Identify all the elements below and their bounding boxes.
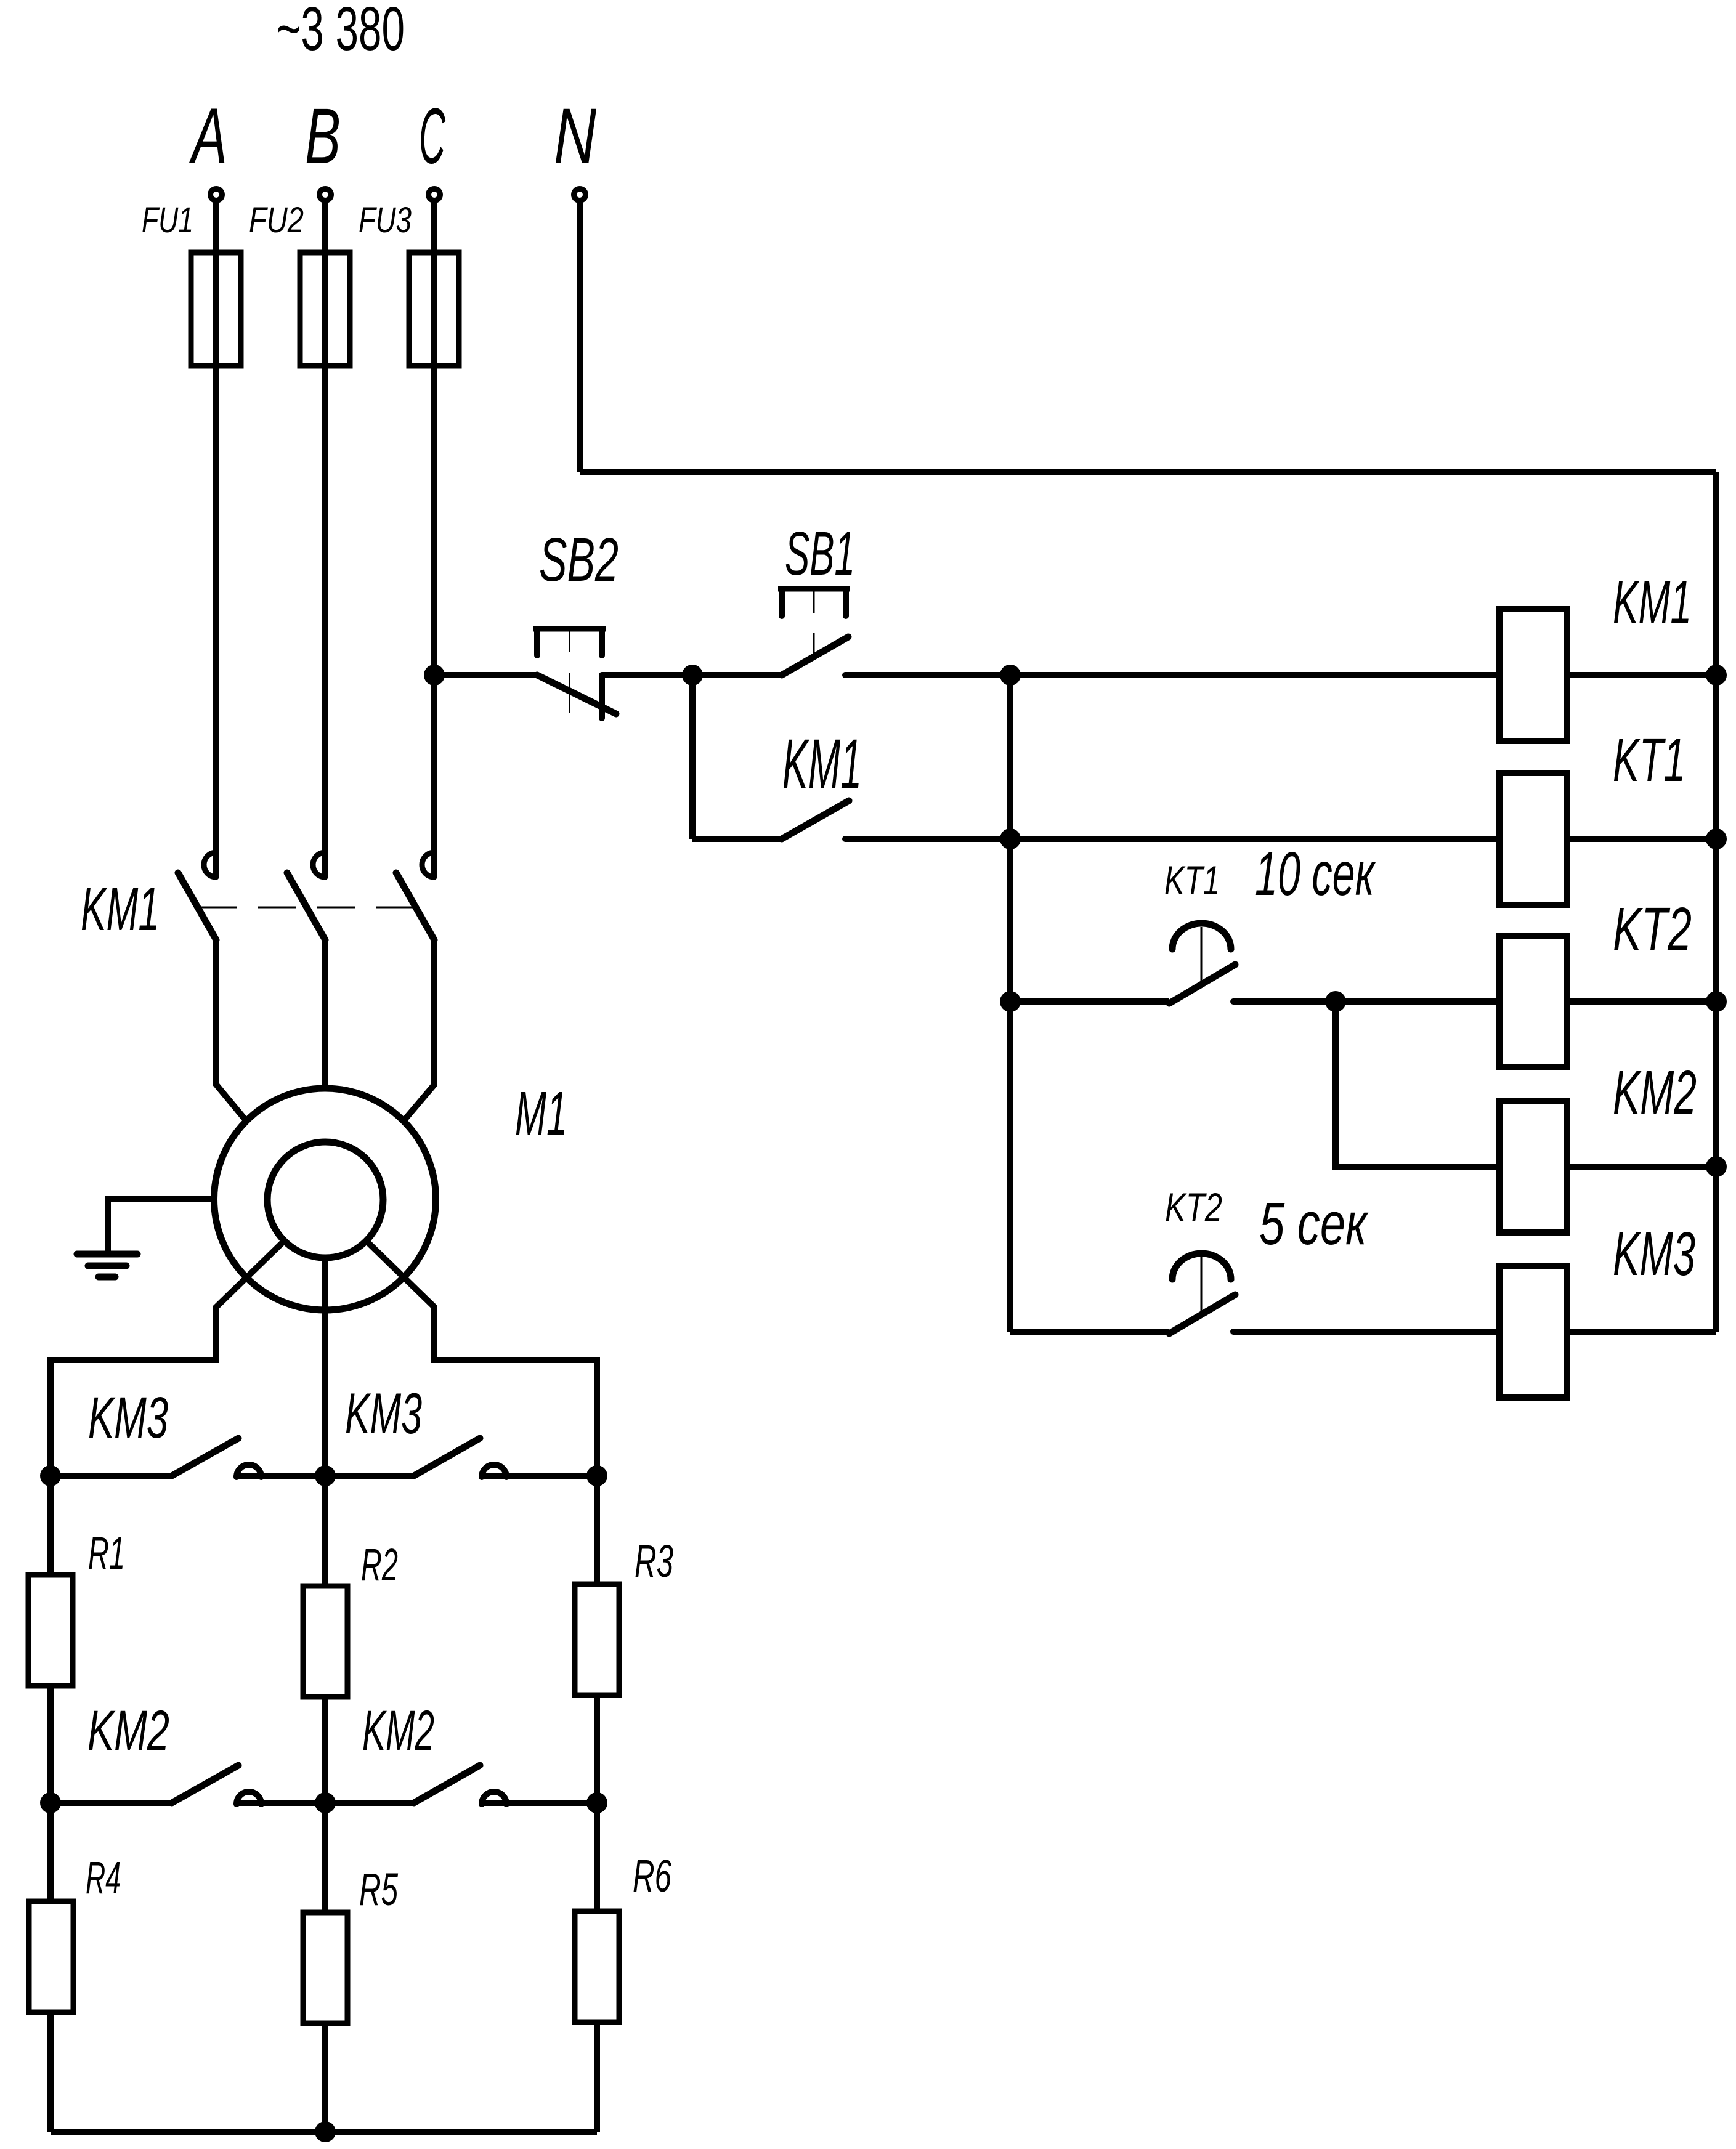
svg-text:KM3: KM3 [88, 1385, 168, 1451]
KM1 linkage dashed line [198, 907, 414, 909]
svg-text:KM1: KM1 [782, 725, 862, 804]
contact KM2.1 lead left [51, 1800, 172, 1806]
wire KM1.3 to motor [404, 940, 434, 1121]
junction rail3 dropper2 [1325, 991, 1346, 1012]
wire KT1 contact to KT2 coil [1233, 998, 1499, 1005]
ground wire [108, 1199, 214, 1252]
svg-text:10 сек: 10 сек [1255, 840, 1376, 909]
button SB2 blade [537, 675, 616, 714]
contact KT1 stem [1201, 927, 1203, 984]
wire phase B [322, 202, 328, 877]
button SB2 fixed stub [599, 675, 605, 718]
wire KM1.1 to motor [216, 940, 246, 1121]
contact KM1.3 blade [396, 873, 434, 940]
junction KM2 row right [586, 1792, 607, 1813]
svg-text:KM1: KM1 [81, 875, 160, 944]
wire KT2 contact to KM3 coil [1233, 1329, 1499, 1335]
wire SB1 to KM1 coil [845, 672, 1499, 678]
svg-text:KM3: KM3 [345, 1381, 422, 1446]
wire bottom bus [51, 2129, 597, 2135]
junction KM2 row middle [315, 1792, 336, 1813]
coil KM3 [1499, 1266, 1567, 1398]
fuse FU3 [409, 253, 459, 366]
svg-text:N: N [554, 92, 596, 180]
svg-text:R5: R5 [359, 1864, 399, 1915]
ground symbol [77, 1254, 137, 1277]
wire rail1 to SB2 [434, 672, 537, 678]
contact KT1 blade [1169, 965, 1235, 1003]
svg-text:KT2: KT2 [1613, 895, 1692, 964]
wire rotor middle [322, 1258, 328, 1586]
contact KM1 aux blade [782, 801, 849, 839]
svg-text:FU2: FU2 [249, 200, 304, 240]
wire R2 to KM2 row [322, 1697, 328, 1912]
svg-text:KM2: KM2 [1613, 1058, 1697, 1127]
resistor R1 [28, 1575, 73, 1686]
contact KM3.2 blade [414, 1438, 480, 1476]
junction KM3 row middle [315, 1465, 336, 1486]
terminal B [320, 189, 331, 201]
wire R1 to KM2 row [47, 1686, 54, 1901]
resistor R6 [575, 1911, 619, 2022]
wire right N bus [1713, 472, 1719, 1332]
svg-text:KM2: KM2 [362, 1699, 434, 1762]
junction bottom bus [315, 2121, 336, 2142]
wire dropper2 [1336, 1002, 1499, 1167]
wire rotor left [51, 1241, 285, 1576]
motor M1 stator circle [214, 1088, 436, 1310]
junction rail2 dropper [1000, 828, 1021, 849]
contact KM3.1 lead left [51, 1473, 172, 1479]
resistor R2 [303, 1586, 347, 1697]
button SB1 blade [782, 637, 848, 675]
svg-text:R3: R3 [635, 1536, 673, 1587]
junction KM3 row right [586, 1465, 607, 1486]
button SB1 actuator [778, 589, 850, 654]
wire KM2 coil to bus [1567, 1164, 1716, 1170]
svg-text:R2: R2 [361, 1539, 398, 1590]
wire R5 to bottom bus [322, 2023, 328, 2132]
button SB2 actuator [533, 629, 606, 713]
wire rail5 left [1010, 1329, 1169, 1335]
coil KM1 [1499, 609, 1567, 741]
junction C phase control tap [424, 665, 445, 686]
wire R6 to bottom bus [594, 2022, 600, 2132]
fuse FU2 [300, 253, 350, 366]
wire SB2 to SB1 [602, 672, 692, 678]
terminal C [429, 189, 440, 201]
svg-text:B: B [305, 92, 341, 180]
contact KM1.2 blade [287, 873, 325, 940]
junction SB1 [682, 665, 703, 686]
wire rail3 to KT1 contact [1010, 998, 1169, 1005]
contact KM2.1 lead right [237, 1800, 325, 1806]
svg-text:FU1: FU1 [142, 200, 193, 240]
wire R4 to bottom bus [47, 2012, 54, 2132]
contact KM3.2 leads [325, 1473, 414, 1479]
terminal A [211, 189, 222, 201]
junction KM2 row left [40, 1792, 61, 1813]
contact KM2.2 leads [325, 1800, 414, 1806]
svg-text:KT1: KT1 [1613, 726, 1685, 795]
svg-text:A: A [189, 92, 227, 180]
svg-text:SB1: SB1 [785, 519, 855, 588]
resistor R5 [303, 1912, 347, 2023]
coil KT2 [1499, 936, 1567, 1067]
svg-text:KT2: KT2 [1165, 1184, 1222, 1230]
contact KM1.2 fixed hook [313, 852, 325, 877]
svg-text:R6: R6 [633, 1850, 672, 1901]
contact KM2.1 hook [237, 1792, 261, 1804]
fuse FU1 [191, 253, 241, 366]
wire to KM1 aux [692, 836, 782, 842]
svg-text:KM1: KM1 [1613, 568, 1692, 637]
wire phase A [213, 202, 219, 877]
contact KM1.1 fixed hook [204, 852, 216, 877]
wire to SB1 [692, 672, 782, 678]
svg-text:~3 380: ~3 380 [277, 0, 405, 63]
contact KM2.2 blade [414, 1765, 480, 1803]
wire rotor right [367, 1241, 598, 1585]
junction rail1 dropper [1000, 665, 1021, 686]
wire KT1 coil to bus [1567, 836, 1716, 842]
wire left dropper [1007, 675, 1013, 1332]
terminal N [574, 189, 586, 201]
wire KM1.2 to motor [322, 940, 328, 1088]
contact KM3.1 lead right [237, 1473, 325, 1479]
wire KM3 coil to bus [1567, 1329, 1716, 1335]
svg-text:C: C [419, 92, 446, 180]
contact KM1.3 fixed hook [422, 852, 434, 877]
contact KM3.2 hook [482, 1465, 506, 1477]
wire neutral N across top [580, 469, 1716, 475]
svg-text:KM3: KM3 [1613, 1220, 1695, 1289]
svg-text:SB2: SB2 [539, 525, 619, 594]
contact KM2.1 blade [172, 1765, 238, 1803]
resistor R3 [575, 1584, 619, 1695]
junction rail3 left [1000, 991, 1021, 1012]
contact KM1.1 blade [178, 873, 216, 940]
junction bus rail1 [1706, 665, 1727, 686]
contact KM3.1 hook [237, 1465, 261, 1477]
contact KT2 blade [1169, 1295, 1235, 1334]
junction bus rail4 [1706, 1156, 1727, 1177]
wire SB1 junction dropper [689, 675, 696, 839]
wire KM1 aux to KT1 coil [845, 836, 1499, 842]
wire neutral N down [577, 202, 583, 472]
svg-text:FU3: FU3 [359, 200, 412, 240]
svg-text:R1: R1 [88, 1528, 125, 1579]
junction bus rail2 [1706, 828, 1727, 849]
wire phase C [431, 202, 437, 877]
junction bus rail3 [1706, 991, 1727, 1012]
contact KT2 stem [1201, 1257, 1203, 1314]
contact KT2 delay arc [1172, 1253, 1231, 1279]
svg-text:5 сек: 5 сек [1259, 1190, 1368, 1257]
contact KM3.1 blade [172, 1438, 238, 1476]
resistor R4 [29, 1901, 73, 2012]
svg-text:KT1: KT1 [1164, 857, 1220, 903]
wire R3 to KM2 row [594, 1695, 600, 1911]
svg-text:KM2: KM2 [87, 1699, 169, 1762]
junction KM3 row left [40, 1465, 61, 1486]
wire KM1 coil to bus [1567, 672, 1716, 678]
coil KT1 [1499, 773, 1567, 905]
contact KT1 delay arc [1172, 923, 1231, 949]
svg-text:M1: M1 [515, 1079, 567, 1148]
contact KM2.2 hook [482, 1792, 506, 1804]
motor M1 rotor circle [267, 1142, 383, 1258]
svg-text:R4: R4 [86, 1852, 121, 1903]
coil KM2 [1499, 1101, 1567, 1232]
wire KT2 coil to bus [1567, 998, 1716, 1005]
